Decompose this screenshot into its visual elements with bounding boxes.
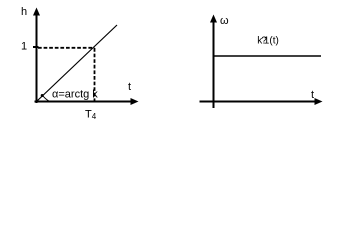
left plot: vertical axis h xyxy=(36,13,38,103)
right plot: horizontal axis arrowhead xyxy=(315,98,323,105)
left plot: horizontal axis t xyxy=(35,101,134,103)
left plot: tick at 1 xyxy=(33,46,39,48)
right plot: vertical axis arrowhead xyxy=(210,15,217,23)
left plot: angle arc at origin xyxy=(42,95,49,101)
left plot: dashed vertical line at t=T4 xyxy=(94,48,96,101)
left plot: horizontal axis arrowhead xyxy=(131,98,139,105)
svg-text:t: t xyxy=(311,89,314,101)
left plot: angle arc dot xyxy=(41,94,44,97)
svg-text:ω: ω xyxy=(220,15,229,27)
left plot: diagonal ramp line h=kt xyxy=(37,25,118,102)
right plot: constant level line omega=k xyxy=(214,55,322,57)
svg-text:t: t xyxy=(128,81,131,93)
svg-text:(t): (t) xyxy=(269,35,278,46)
left plot: dashed horizontal line at h=1 xyxy=(38,47,95,49)
svg-text:1: 1 xyxy=(21,41,27,53)
svg-text:h: h xyxy=(21,6,27,18)
left plot: vertical axis arrowhead xyxy=(33,8,40,16)
right plot: vertical axis omega xyxy=(213,20,215,108)
svg-text:α=arctg k: α=arctg k xyxy=(52,89,98,101)
right plot: horizontal axis t xyxy=(200,101,318,103)
